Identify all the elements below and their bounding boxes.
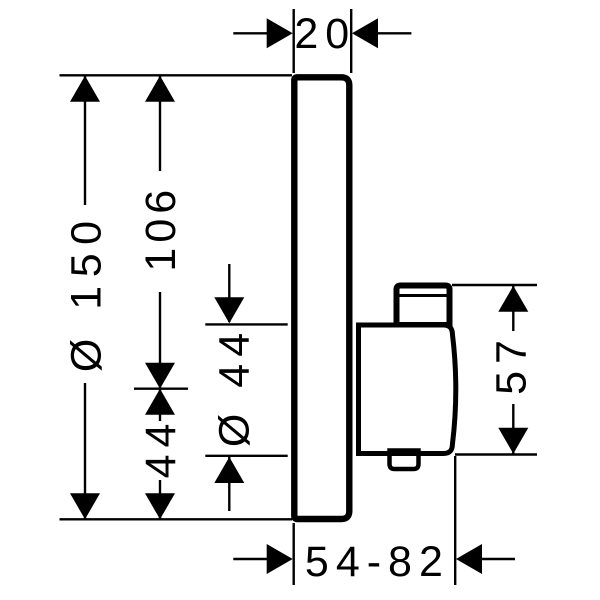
wire dim-20 right line [378, 32, 412, 34]
text mask 44 [140, 421, 180, 480]
arrow 57 top (points up) [498, 286, 528, 312]
wire ext line 5482-left [293, 523, 295, 585]
wire dim-5482 right line [481, 558, 515, 560]
wire ext line 57-top [452, 284, 537, 286]
svg-text:Ø 150: Ø 150 [62, 212, 110, 372]
arrow 5482 left [267, 544, 293, 574]
wire dim line 57 [512, 285, 514, 455]
wire ext line 57-bottom [455, 453, 537, 455]
wire dim line d44 upper [228, 264, 230, 322]
svg-text:54-82: 54-82 [305, 538, 450, 586]
escutcheon plate [294, 77, 349, 519]
arrow 44 top (bowtie lower) [145, 389, 175, 415]
arrow d44 bottom (points up) [214, 457, 244, 483]
arrow 106 bottom (bowtie upper) [145, 363, 175, 389]
svg-text:Ø 44: Ø 44 [211, 326, 259, 447]
wire dim line d44 lower [228, 456, 230, 511]
wire dim-5482 left line [233, 558, 268, 560]
wire ext line 150-bottom [60, 518, 293, 520]
svg-text:20: 20 [294, 10, 356, 58]
cap inner line [394, 294, 452, 297]
arrow dim-20 left [267, 18, 293, 48]
handle body [359, 325, 456, 454]
svg-text:57: 57 [487, 333, 535, 395]
arrow 44 bottom [145, 493, 175, 519]
wire tick 106/44 boundary [134, 388, 188, 390]
wire ext line 5482-right [454, 456, 456, 585]
wire ext line plate-right-top [350, 9, 352, 73]
arrow dim-20 right [352, 18, 378, 48]
svg-text:106: 106 [137, 185, 185, 272]
wire dim line 150 [84, 76, 86, 519]
arrow 150 top [70, 76, 100, 102]
arrow 150 bottom [70, 493, 100, 519]
cap (cartridge end) [397, 286, 450, 326]
arrow 5482 right [456, 544, 482, 574]
arrow d44 top (points down) [214, 297, 244, 323]
wire tick d44 top [205, 323, 287, 325]
svg-text:44: 44 [137, 417, 185, 479]
wire tick d44 bottom [205, 455, 287, 457]
text mask 57 [493, 331, 533, 404]
text mask 150 [65, 205, 105, 383]
wire dim line 106-44 [159, 76, 161, 519]
wire ext line 150-top [60, 74, 293, 76]
wire dim-20 left line [233, 32, 268, 34]
wire ext line plate-left-top [293, 9, 295, 73]
text mask 106 [140, 171, 180, 292]
arrow 106 top [145, 76, 175, 102]
arrow 57 bottom (points down) [498, 428, 528, 454]
bottom tab [390, 451, 419, 470]
